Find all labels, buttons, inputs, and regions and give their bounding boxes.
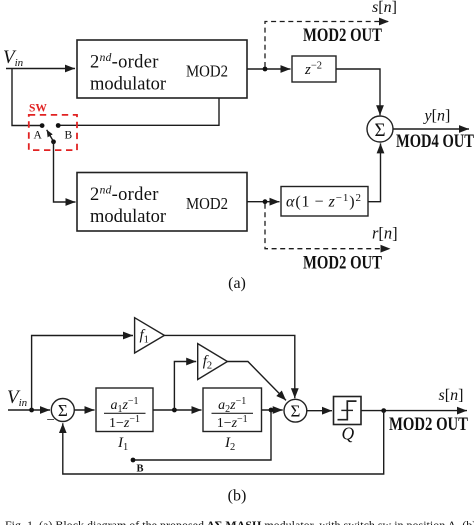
svg-text:s[n]: s[n] — [439, 387, 464, 404]
wire Vin input (a) — [6, 68, 75, 70]
svg-text:Vin: Vin — [7, 387, 28, 409]
op-amp adder sigma (a) — [367, 116, 393, 142]
svg-text:B: B — [65, 130, 73, 142]
svg-text:B: B — [137, 464, 144, 475]
svg-text:MOD2 OUT: MOD2 OUT — [389, 414, 468, 435]
wire I1 to I2 — [153, 409, 202, 411]
wire dashed r[n] tap — [265, 204, 391, 249]
node B terminal — [131, 458, 136, 463]
svg-text:Fig. 1. (a) Block diagram of: Fig. 1. (a) Block diagram of the propose… — [5, 518, 474, 525]
wire y[n] output — [393, 128, 469, 130]
svg-text:Σ: Σ — [290, 402, 300, 421]
op-amp adder sigma2 (b) — [284, 399, 307, 422]
block quantizer Q — [334, 397, 362, 425]
wire dashed s[n] tap — [265, 22, 389, 68]
wire I2 to sigma2 — [262, 409, 283, 411]
amplifier f1 — [135, 318, 165, 353]
svg-text:I1: I1 — [117, 435, 128, 453]
block MOD2 top modulator — [77, 40, 247, 98]
svg-text:MOD2: MOD2 — [186, 194, 228, 213]
wire Vin feedforward to f1 — [32, 336, 133, 411]
wire node B branch — [134, 410, 271, 460]
svg-text:modulator: modulator — [90, 207, 166, 227]
wire sigma1 to integrator I1 — [74, 409, 94, 411]
node quantizer output junction — [381, 408, 386, 413]
switch lever arm — [47, 130, 54, 142]
svg-text:MOD2: MOD2 — [186, 62, 228, 81]
svg-text:(a): (a) — [228, 275, 246, 292]
svg-text:I2: I2 — [224, 435, 235, 453]
svg-text:Vin: Vin — [3, 47, 24, 69]
svg-text:MOD2 OUT: MOD2 OUT — [303, 253, 382, 274]
svg-text:(b): (b) — [228, 488, 247, 505]
node junction top output — [263, 67, 268, 72]
amplifier f2 — [198, 344, 228, 380]
svg-text:Σ: Σ — [374, 120, 385, 141]
wire feedback to sigma1 — [63, 411, 384, 474]
svg-text:s[n]: s[n] — [372, 0, 397, 16]
wire z-2 output to adder — [336, 69, 380, 115]
wire switch pivot to bottom modulator — [54, 142, 76, 202]
wire f1 output to sigma2 — [164, 335, 294, 398]
wire Vin input (b) — [8, 409, 50, 411]
svg-text:Σ: Σ — [58, 401, 68, 420]
block MOD2 bottom modulator — [77, 173, 247, 232]
wire quantizer output s[n] — [361, 410, 467, 412]
svg-text:MOD2 OUT: MOD2 OUT — [303, 25, 382, 46]
node sigma2 input junction — [269, 408, 274, 413]
wire alpha block to adder — [368, 143, 381, 201]
node switch pivot — [51, 139, 56, 144]
node Vin junction (b) — [29, 408, 34, 413]
svg-text:SW: SW — [29, 103, 47, 115]
svg-text:modulator: modulator — [90, 75, 166, 95]
block z^-2 delay — [292, 56, 336, 82]
svg-text:MOD4 OUT: MOD4 OUT — [396, 131, 474, 152]
wire f2 output to sigma2 — [227, 362, 286, 401]
svg-text:−: − — [47, 413, 55, 429]
node switch terminal B — [56, 123, 61, 128]
svg-text:A: A — [34, 130, 43, 142]
wire I1 output to f2 — [174, 362, 196, 411]
svg-text:Q: Q — [342, 424, 355, 444]
block integrator I2 — [203, 388, 262, 432]
wire top modulator bottom tap to switch B — [59, 98, 219, 125]
svg-text:y[n]: y[n] — [423, 108, 451, 125]
op-amp adder sigma1 (b) — [51, 399, 74, 422]
wire top modulator output to z-2 block — [247, 68, 291, 70]
switch SW dashed outline — [29, 115, 77, 150]
node I1 output junction — [172, 408, 177, 413]
block alpha(1-z^-1)^2 — [281, 187, 368, 217]
block integrator I1 — [96, 388, 153, 432]
wire Vin branch down to switch A — [12, 69, 41, 126]
svg-text:α(1 − z−1)2: α(1 − z−1)2 — [286, 192, 362, 211]
node switch terminal A — [40, 123, 45, 128]
wire bottom modulator output to alpha block — [247, 201, 280, 203]
svg-text:r[n]: r[n] — [372, 224, 398, 243]
wire sigma2 to quantizer — [307, 410, 332, 412]
node junction bottom output — [263, 199, 268, 204]
